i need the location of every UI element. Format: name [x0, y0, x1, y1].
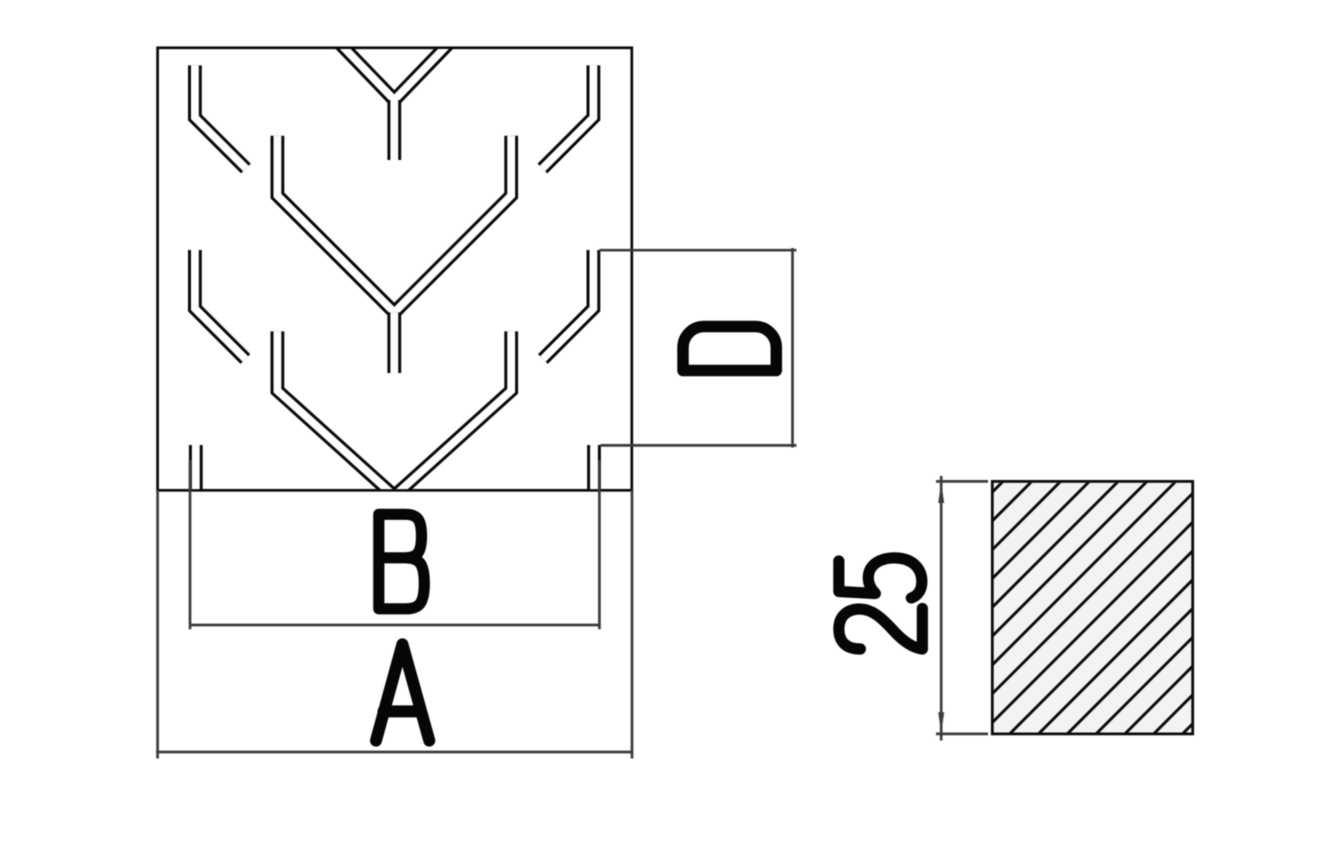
dimension 25 extension line bottom	[936, 733, 988, 736]
dimension 25 extension line top	[936, 480, 988, 483]
chevron row2 V arms	[277, 136, 511, 313]
label B	[379, 514, 425, 609]
dimension B extension line right	[598, 460, 601, 629]
chevron row1 left edge piece	[195, 65, 246, 168]
dimension D extension line bottom	[601, 444, 797, 447]
chevron row1 V arms (clipped at top)	[337, 41, 452, 101]
dimension B extension line left	[189, 460, 192, 629]
dimension A line	[156, 751, 633, 754]
cross-section hatched rectangle	[992, 481, 1192, 734]
chevron row2 left edge piece	[195, 250, 246, 359]
chevron row2 right edge piece	[543, 250, 594, 359]
label A	[376, 644, 429, 740]
dimension 25 line	[940, 476, 943, 741]
label 25 (rotated)	[839, 558, 923, 649]
chevron row3 right edge bar	[587, 445, 601, 494]
chevron row3 V arms (clipped at bottom)	[277, 331, 511, 496]
dimension A extension line right	[631, 490, 634, 759]
belt outline rectangle (top view)	[158, 48, 632, 491]
chevron row3 left edge bar	[189, 445, 203, 494]
label D (rotated)	[683, 327, 776, 371]
chevron row1 right edge piece	[542, 65, 593, 168]
chevron row2 center stem	[387, 312, 401, 373]
dimension A extension line left	[156, 490, 159, 759]
dimension B line	[190, 624, 599, 627]
dimension 25 arrow up	[938, 482, 944, 503]
cross-section hatching 45deg	[751, 481, 1326, 734]
chevron row1 center stem	[387, 100, 401, 160]
dimension D line	[791, 248, 794, 448]
dimension D extension line top	[600, 249, 797, 252]
dimension 25 arrow down	[938, 712, 944, 733]
